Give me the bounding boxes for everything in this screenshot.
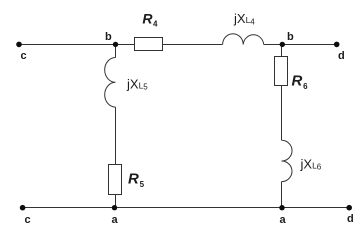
svg-text:b: b <box>105 31 112 43</box>
wire: L6 to node a (right) <box>281 182 283 208</box>
svg-text:b: b <box>287 31 294 43</box>
svg-text:c: c <box>21 50 27 62</box>
svg-text:c: c <box>25 214 31 226</box>
svg-text:R6: R6 <box>292 73 309 92</box>
svg-text:jXL5: jXL5 <box>126 77 148 92</box>
terminal c (bottom) <box>20 205 26 211</box>
wire: R6 to inductor L6 <box>281 86 283 141</box>
resistor R4 <box>135 38 163 51</box>
svg-text:R4: R4 <box>142 11 158 29</box>
terminal c (top) <box>16 42 22 48</box>
wire: top rail, c to node b <box>19 44 116 46</box>
inductor L6 (jXL6) <box>282 140 293 181</box>
node b (left) <box>113 42 118 47</box>
resistor R5 <box>109 165 122 195</box>
node b (right) <box>280 42 285 47</box>
wire: L5 to resistor R5 <box>115 107 117 164</box>
node a (left) <box>112 205 117 210</box>
svg-text:a: a <box>112 214 119 226</box>
svg-text:jXL4: jXL4 <box>233 11 255 27</box>
wire: L4 to node b (right) <box>264 44 283 46</box>
wire: R5 to node a (left) <box>115 195 117 208</box>
svg-text:R5: R5 <box>128 171 145 190</box>
svg-text:d: d <box>347 213 354 225</box>
wire: node b to R4 left lead <box>116 44 135 46</box>
wire: node b (right) down to resistor R6 <box>281 45 283 57</box>
terminal d (bottom) <box>346 205 352 211</box>
inductor L5 (jXL5) <box>105 58 116 108</box>
svg-text:a: a <box>280 214 287 226</box>
terminal d (top) <box>334 42 340 48</box>
resistor R6 <box>275 57 288 86</box>
wire: node b (right) to terminal d (top) <box>282 44 336 46</box>
wire: node b (left) down to inductor L5 <box>115 45 117 58</box>
wire: bottom rail, c to d <box>23 207 350 209</box>
svg-text:d: d <box>338 50 345 62</box>
wire: R4 to inductor L4 <box>163 44 223 46</box>
svg-text:jXL6: jXL6 <box>300 157 322 172</box>
node a (right) <box>279 205 284 210</box>
inductor L4 (jXL4) <box>223 34 264 45</box>
